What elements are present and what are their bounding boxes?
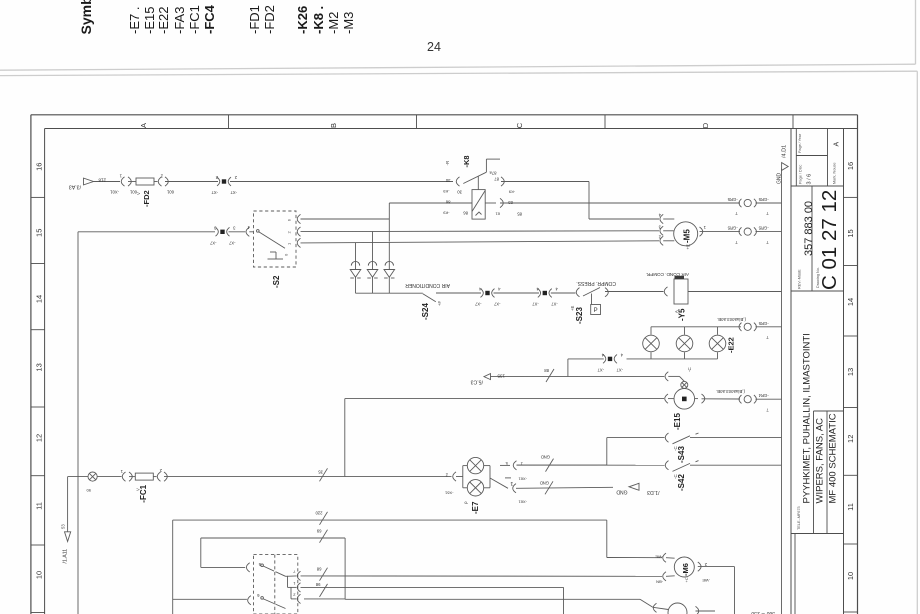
svg-text:-WE: -WE <box>655 555 663 560</box>
svg-text:-K9: -K9 <box>443 189 450 194</box>
svg-text:B: B <box>329 123 338 128</box>
svg-text:14: 14 <box>35 295 44 303</box>
svg-text:-S23: -S23 <box>575 307 584 324</box>
svg-text:-FD2: -FD2 <box>142 190 151 207</box>
svg-text:-GR5: -GR5 <box>758 226 769 231</box>
svg-text:16: 16 <box>846 162 855 170</box>
svg-text:601: 601 <box>166 190 174 195</box>
svg-text:3 / 6: 3 / 6 <box>807 174 813 185</box>
svg-text:10: 10 <box>846 572 855 580</box>
svg-text:11: 11 <box>846 503 855 511</box>
svg-text:35: 35 <box>318 470 323 475</box>
svg-text:-R: -R <box>445 160 450 165</box>
svg-text:220: 220 <box>315 511 323 516</box>
svg-text:C: C <box>515 122 524 128</box>
svg-text:ρ: ρ <box>463 501 468 504</box>
svg-text:REV.-MääE: REV.-MääE <box>798 269 802 289</box>
svg-text:-GR5: -GR5 <box>727 226 738 231</box>
svg-text:-E7 .: -E7 . <box>127 7 142 34</box>
svg-text:Mark, Nouse: Mark, Nouse <box>833 162 837 184</box>
svg-text:WIPERS, FANS, AC: WIPERS, FANS, AC <box>815 418 826 504</box>
svg-text:-E22: -E22 <box>727 337 736 353</box>
svg-text:-GR4: -GR4 <box>758 393 769 398</box>
svg-text:-X7: -X7 <box>551 302 558 307</box>
svg-text:Page / Disc: Page / Disc <box>799 164 803 184</box>
svg-text:85: 85 <box>517 212 522 217</box>
svg-text:PYYHKIMET, PUHALLIN, ILMASTOIN: PYYHKIMET, PUHALLIN, ILMASTOINTI <box>802 333 813 503</box>
svg-text:A: A <box>139 123 148 128</box>
svg-text:GND: GND <box>616 489 628 495</box>
svg-text:98: 98 <box>315 582 320 587</box>
svg-text:86: 86 <box>445 200 450 205</box>
svg-text:357 883 00: 357 883 00 <box>803 201 815 256</box>
svg-text:-S2: -S2 <box>272 275 281 288</box>
svg-text:TELE.-MF675: TELE.-MF675 <box>797 506 801 530</box>
svg-text:GND: GND <box>777 173 783 185</box>
svg-text:-GR5: -GR5 <box>758 321 769 326</box>
svg-text:12: 12 <box>35 434 44 442</box>
svg-text:GND: GND <box>540 481 549 486</box>
svg-text:-FC1: -FC1 <box>187 5 202 34</box>
svg-text:MF 400 SCHEMATIC: MF 400 SCHEMATIC <box>828 413 839 503</box>
svg-text:-Y5: -Y5 <box>678 308 687 321</box>
svg-text:-X61: -X61 <box>444 491 453 496</box>
svg-text:87: 87 <box>494 177 499 182</box>
svg-text:-C: -C <box>673 474 678 479</box>
svg-text:Page / Year: Page / Year <box>798 133 802 153</box>
svg-text:10: 10 <box>35 571 44 579</box>
svg-text:87a: 87a <box>489 171 497 176</box>
svg-text:V: V <box>136 192 141 195</box>
svg-text:+C: +C <box>684 577 689 582</box>
svg-text:11: 11 <box>35 502 44 510</box>
svg-text:-K9: -K9 <box>508 190 515 195</box>
svg-text:-S43: -S43 <box>677 446 686 463</box>
svg-text:14: 14 <box>846 298 855 306</box>
svg-text:16: 16 <box>35 163 44 171</box>
svg-text:-FC1: -FC1 <box>139 484 148 502</box>
svg-text:/5.C3: /5.C3 <box>470 379 483 385</box>
svg-text:-FC4: -FC4 <box>202 4 217 34</box>
svg-text:-S42: -S42 <box>677 474 686 491</box>
svg-text:Symbol: Symbol <box>78 0 94 35</box>
svg-text:24: 24 <box>427 40 441 54</box>
svg-text:15: 15 <box>846 229 855 237</box>
svg-text:-M5: -M5 <box>683 229 692 243</box>
svg-text:-X7: -X7 <box>493 302 500 307</box>
svg-text:68: 68 <box>316 567 321 572</box>
svg-text:-E22: -E22 <box>156 7 171 34</box>
svg-text:-FD2: -FD2 <box>262 5 277 34</box>
svg-text:-FD1: -FD1 <box>247 5 262 34</box>
svg-text:560 ∼ 230: 560 ∼ 230 <box>751 610 775 614</box>
svg-text:-X7: -X7 <box>474 302 481 307</box>
svg-text:53: 53 <box>61 524 66 529</box>
svg-text:69: 69 <box>316 529 321 534</box>
svg-text:-X01: -X01 <box>109 190 119 195</box>
svg-text:AIR CONDITIONER: AIR CONDITIONER <box>405 282 450 288</box>
svg-text:/1.A11: /1.A11 <box>63 549 69 564</box>
svg-text:86: 86 <box>463 211 468 216</box>
svg-text:135: 135 <box>497 374 505 379</box>
svg-text:-M6: -M6 <box>681 563 690 576</box>
svg-text:-E15: -E15 <box>673 413 682 430</box>
svg-text:88: 88 <box>544 368 549 373</box>
svg-text:13: 13 <box>35 363 44 371</box>
svg-text:90: 90 <box>86 488 91 493</box>
svg-text:-E15: -E15 <box>142 7 157 34</box>
svg-text:-C: -C <box>673 446 678 451</box>
svg-text:12: 12 <box>846 435 855 443</box>
svg-text:(,Blaäöö3.äöB.: (,Blaäöö3.äöB. <box>717 317 746 322</box>
svg-text:-WE: -WE <box>702 578 710 583</box>
svg-text:GND: GND <box>541 455 550 460</box>
svg-text:+E: +E <box>686 244 691 249</box>
svg-text:30: 30 <box>457 190 462 195</box>
svg-text:/4.D1: /4.D1 <box>782 145 788 158</box>
svg-text:30: 30 <box>445 178 450 183</box>
svg-text:(,Blaäöö3.äöB.: (,Blaäöö3.äöB. <box>716 389 745 394</box>
svg-text:-X7: -X7 <box>597 367 604 372</box>
svg-text:-X7: -X7 <box>211 190 218 195</box>
svg-text:15: 15 <box>35 229 44 237</box>
svg-text:-S24: -S24 <box>421 303 430 320</box>
svg-text:+E: +E <box>570 306 575 311</box>
svg-text:V: V <box>136 488 141 491</box>
svg-text:-GR5: -GR5 <box>727 197 738 202</box>
svg-text:-X61: -X61 <box>518 477 527 482</box>
svg-text:-X7: -X7 <box>532 302 539 307</box>
svg-text:-X7: -X7 <box>228 240 235 245</box>
svg-text:D: D <box>701 122 710 128</box>
svg-text:-X7: -X7 <box>230 190 237 195</box>
svg-text:-BN: -BN <box>656 580 663 585</box>
svg-text:218: 218 <box>98 178 106 183</box>
svg-text:13: 13 <box>846 368 855 376</box>
svg-text:-X61: -X61 <box>518 500 527 505</box>
svg-text:/3.A3: /3.A3 <box>69 184 81 190</box>
svg-text:-X7: -X7 <box>209 240 216 245</box>
svg-text:C 01 27 12: C 01 27 12 <box>818 190 841 290</box>
svg-text:5.: 5. <box>505 461 508 466</box>
svg-text:AIR COND. COMPR.: AIR COND. COMPR. <box>646 272 689 277</box>
svg-text:P: P <box>594 308 598 314</box>
svg-text:-K8: -K8 <box>462 155 471 167</box>
svg-text:-GR5: -GR5 <box>758 197 769 202</box>
svg-text:-M2: -M2 <box>326 12 341 34</box>
svg-text:-K9: -K9 <box>443 211 450 216</box>
svg-text:COMPR. PRESS.: COMPR. PRESS. <box>576 280 616 286</box>
svg-text:A: A <box>834 142 841 147</box>
svg-text:61: 61 <box>495 212 500 217</box>
svg-text:-X7: -X7 <box>616 367 623 372</box>
svg-text:-K26: -K26 <box>295 6 310 34</box>
svg-text:A: A <box>674 310 679 313</box>
svg-text:-C: -C <box>687 367 692 372</box>
svg-text:85: 85 <box>508 200 513 205</box>
svg-text:-K8 .: -K8 . <box>311 6 326 34</box>
svg-text:-E7: -E7 <box>471 501 480 514</box>
svg-text:-M3: -M3 <box>341 12 356 34</box>
svg-text:+#: +# <box>437 301 442 306</box>
svg-text:-FA3: -FA3 <box>172 7 187 34</box>
svg-text:/1.D3: /1.D3 <box>647 489 660 495</box>
